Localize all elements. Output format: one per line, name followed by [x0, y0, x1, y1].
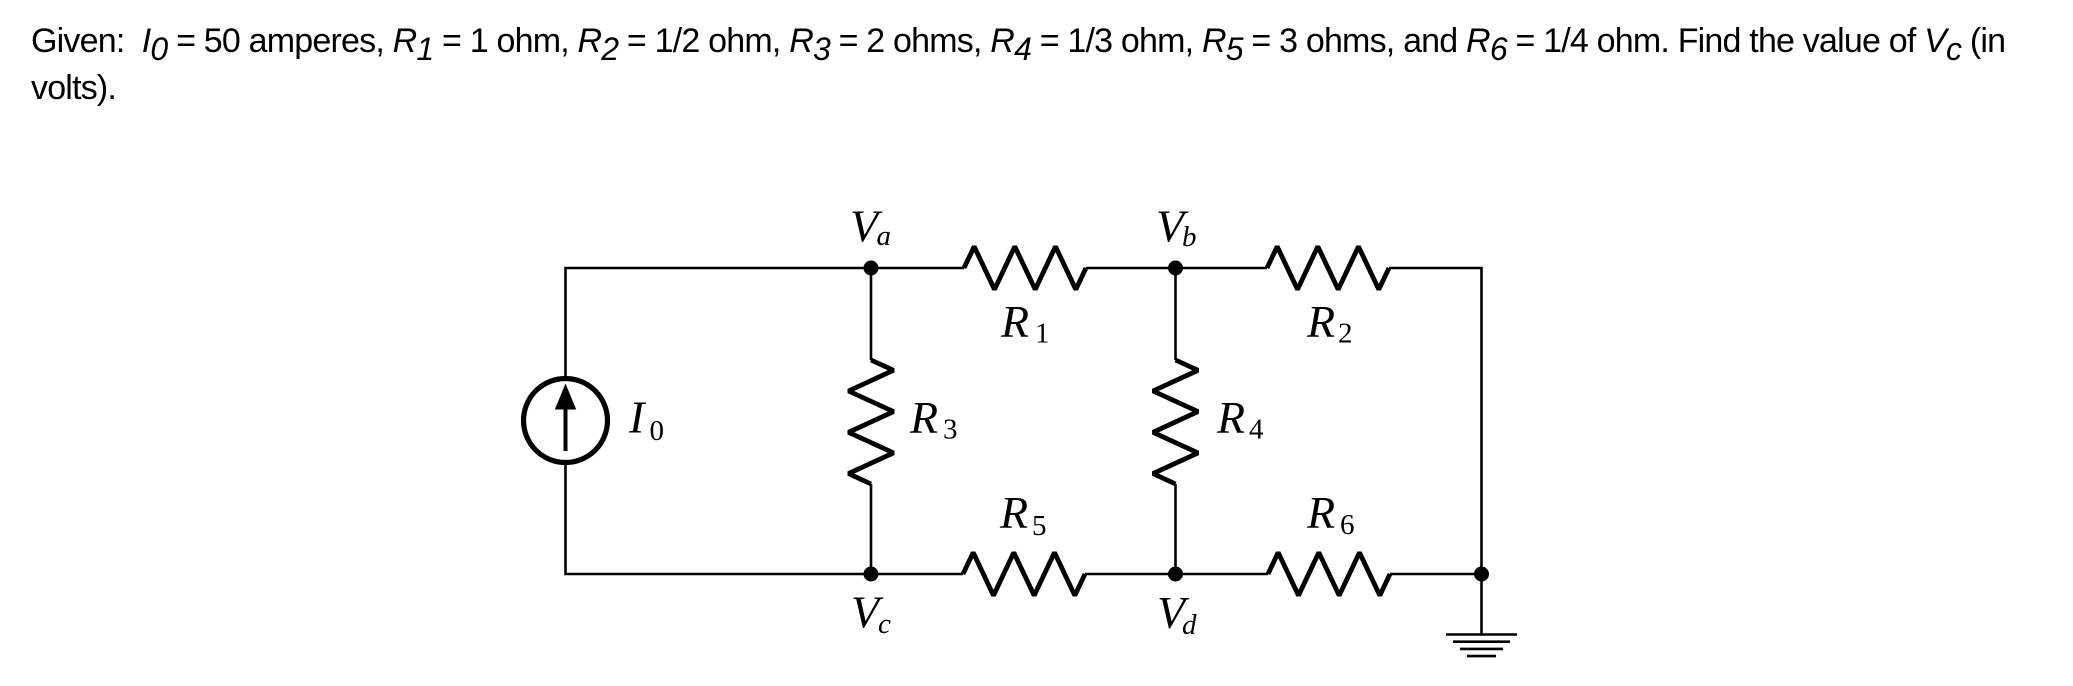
- label R3: [909, 392, 958, 446]
- svg-text:R: R: [1216, 392, 1245, 443]
- label R6: [1306, 487, 1355, 541]
- node Va: [864, 261, 879, 276]
- label R1: [1000, 296, 1050, 350]
- svg-text:R: R: [1000, 296, 1029, 347]
- svg-text:R: R: [999, 487, 1028, 538]
- svg-text:c: c: [878, 608, 891, 640]
- label R5: [999, 487, 1047, 542]
- svg-text:b: b: [1182, 221, 1197, 253]
- label R4: [1216, 392, 1264, 446]
- node Vc: [864, 567, 879, 582]
- resistor R1: [964, 247, 1086, 290]
- svg-text:3: 3: [943, 413, 958, 445]
- resistor R2: [1267, 247, 1389, 290]
- resistor R4: [1153, 360, 1198, 484]
- resistor R6: [1268, 553, 1390, 596]
- wire top-middle: R1 to node Vb: [1086, 267, 1267, 270]
- svg-text:1: 1: [1035, 318, 1050, 350]
- svg-text:6: 6: [1340, 509, 1355, 541]
- wire from resistor R3 down to node Vc: [870, 484, 873, 574]
- svg-text:2: 2: [1338, 318, 1353, 350]
- wire bottom-middle: R5 to node Vd: [1085, 573, 1268, 576]
- svg-text:R: R: [1306, 487, 1335, 538]
- svg-text:4: 4: [1249, 413, 1264, 445]
- wire top-left: from current source up and across to node Va: [566, 268, 965, 377]
- node ground junction: [1474, 567, 1489, 582]
- svg-text:0: 0: [650, 415, 665, 447]
- label I0: [628, 392, 664, 447]
- label R2: [1306, 296, 1353, 350]
- svg-text:a: a: [877, 220, 892, 252]
- wire from node Vb down to resistor R4: [1174, 268, 1177, 360]
- problem statement text: [31, 18, 2005, 112]
- current source I0: [524, 379, 608, 463]
- node Vb: [1168, 261, 1183, 276]
- wire bottom-right: R6 to ground junction: [1390, 573, 1483, 576]
- svg-text:R: R: [909, 392, 938, 443]
- svg-text:I: I: [628, 392, 647, 443]
- svg-text:5: 5: [1032, 510, 1047, 542]
- label Vd: [1157, 587, 1197, 641]
- wire ground stem: [1480, 574, 1483, 635]
- wire top-right corner and right vertical wire: [1389, 268, 1482, 574]
- label Va: [850, 200, 891, 252]
- wire from resistor R4 down to node Vd: [1174, 484, 1177, 574]
- svg-text:R: R: [1306, 296, 1335, 347]
- ground: [1446, 635, 1517, 657]
- resistor R3: [849, 360, 894, 484]
- wire from node Va down to resistor R3: [870, 268, 873, 360]
- label Vb: [1156, 200, 1197, 253]
- svg-text:d: d: [1182, 609, 1197, 641]
- wire bottom-left: from current source down and across to node Vc: [566, 465, 964, 575]
- node Vd: [1168, 567, 1183, 582]
- resistor R5: [963, 553, 1085, 596]
- label Vc: [851, 587, 891, 640]
